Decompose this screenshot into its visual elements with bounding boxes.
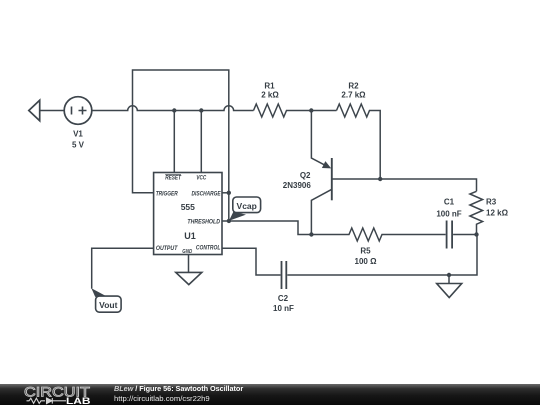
svg-text:10 nF: 10 nF — [273, 304, 294, 313]
svg-text:5 V: 5 V — [72, 141, 85, 150]
svg-text:Q2: Q2 — [300, 171, 311, 180]
svg-text:R3: R3 — [486, 197, 497, 206]
svg-text:2 kΩ: 2 kΩ — [261, 91, 279, 100]
svg-text:U1: U1 — [184, 231, 196, 241]
svg-text:DISCHARGE: DISCHARGE — [192, 191, 222, 198]
svg-text:VCC: VCC — [196, 174, 206, 181]
svg-text:12 kΩ: 12 kΩ — [486, 208, 509, 217]
svg-text:OUTPUT: OUTPUT — [156, 245, 179, 252]
svg-text:THRESHOLD: THRESHOLD — [187, 218, 220, 225]
svg-text:2.7 kΩ: 2.7 kΩ — [341, 91, 366, 100]
svg-text:100 nF: 100 nF — [436, 209, 461, 218]
svg-text:GND: GND — [182, 249, 193, 255]
svg-text:RESET: RESET — [165, 174, 182, 181]
svg-text:2N3906: 2N3906 — [283, 181, 312, 190]
svg-text:C1: C1 — [444, 198, 455, 207]
svg-text:TRIGGER: TRIGGER — [156, 191, 179, 198]
svg-text:R5: R5 — [360, 247, 371, 256]
svg-text:LAB: LAB — [66, 396, 91, 405]
svg-text:R2: R2 — [348, 82, 359, 91]
svg-text:CONTROL: CONTROL — [196, 244, 221, 251]
svg-text:C2: C2 — [278, 294, 289, 303]
svg-text:Vout: Vout — [99, 300, 117, 310]
svg-text:100 Ω: 100 Ω — [355, 257, 378, 266]
svg-text:Vcap: Vcap — [237, 201, 257, 211]
svg-text:555: 555 — [181, 202, 195, 212]
svg-text:V1: V1 — [73, 130, 83, 139]
svg-text:R1: R1 — [264, 82, 275, 91]
